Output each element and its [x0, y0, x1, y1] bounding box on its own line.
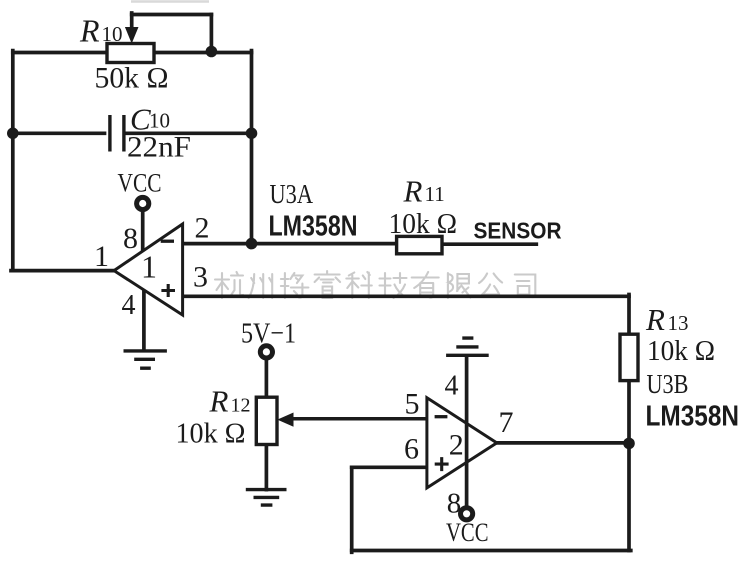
svg-text:10: 10 [149, 109, 170, 133]
watermark char 4 (rui) [315, 271, 341, 298]
junction node U3B output [623, 438, 635, 450]
wire U3B output pin7 [497, 441, 631, 445]
svg-text:5V−1: 5V−1 [241, 318, 296, 350]
svg-text:8: 8 [447, 487, 462, 519]
svg-text:4: 4 [122, 290, 136, 321]
junction node pin2 [246, 238, 258, 250]
svg-text:LM358N: LM358N [646, 401, 740, 433]
svg-text:1: 1 [141, 249, 157, 285]
watermark char 10 (si) [515, 275, 536, 298]
svg-text:10k Ω: 10k Ω [389, 208, 458, 240]
inverted ground above U3B pin4 [446, 338, 489, 355]
svg-text:2: 2 [449, 429, 464, 462]
svg-text:50k Ω: 50k Ω [95, 62, 169, 95]
minus sign inside U3A [161, 240, 174, 243]
plus sign inside U3A [161, 284, 175, 297]
svg-text:6: 6 [404, 433, 419, 466]
svg-text:10: 10 [102, 22, 123, 46]
svg-text:8: 8 [123, 222, 138, 255]
resistor R10 body (potentiometer) [107, 44, 154, 63]
wire left vertical [11, 51, 15, 271]
watermark char 3 (jiang) [281, 273, 309, 298]
svg-text:10k Ω: 10k Ω [647, 335, 715, 367]
watermark char 8 (xian) [448, 273, 471, 298]
wire pin6 horizontal into U3B [352, 465, 427, 469]
faint cropped line at top [131, 0, 209, 3]
resistor R13 body [620, 334, 638, 380]
svg-text:R: R [79, 13, 100, 49]
svg-text:4: 4 [445, 370, 459, 401]
wire R12 bottom to ground [265, 445, 269, 490]
svg-text:12: 12 [231, 395, 251, 417]
svg-text:10k Ω: 10k Ω [176, 418, 246, 450]
wire U3A output pin1 to left rail [11, 269, 115, 273]
svg-text:SENSOR: SENSOR [474, 217, 562, 243]
svg-text:R: R [209, 384, 229, 419]
svg-text:U3A: U3A [270, 179, 314, 209]
watermark char 9 (gong) [479, 274, 502, 295]
wire R12 wiper to U3B pin5 [291, 417, 427, 421]
svg-text:U3B: U3B [647, 369, 689, 399]
watermark char 2 (zhou) [249, 274, 273, 298]
svg-text:11: 11 [425, 182, 445, 206]
wire C10 right segment [125, 131, 251, 135]
wire R13 to output junction [627, 380, 631, 443]
capacitor C10 left plate [108, 115, 111, 152]
wire U3A pin2 to R11 [183, 242, 397, 246]
svg-text:2: 2 [195, 212, 210, 245]
svg-text:LM358N: LM358N [269, 211, 358, 243]
wire right column pin3 to R13 [627, 295, 631, 335]
wire R10 wiper vertical drop [210, 15, 214, 52]
watermark char 5 (ke) [346, 272, 372, 298]
svg-text:7: 7 [499, 406, 514, 439]
wire feedback vertical up to pin6 [350, 467, 354, 552]
wire top feedback horizontal (R10 row) [13, 51, 252, 55]
svg-text:1: 1 [94, 240, 109, 273]
potentiometer R12 wiper arrow [277, 413, 293, 427]
wire R10 wiper top [132, 13, 212, 17]
ground under R12 [246, 490, 287, 506]
wire 5V-1 to R12 top [265, 358, 269, 397]
VCC terminal circle (top) [137, 197, 149, 209]
svg-text:R: R [645, 302, 665, 337]
op-amp U3B triangle [427, 398, 497, 488]
svg-text:3: 3 [193, 261, 208, 294]
junction node R10 wiper [206, 46, 218, 58]
resistor R10 wiper arrow [125, 27, 139, 44]
wire R11 to SENSOR [442, 242, 536, 246]
5V-1 terminal circle [260, 346, 272, 358]
wire U3A pin4 to ground [142, 290, 146, 351]
wire U3A pin3 horizontal [183, 294, 629, 298]
svg-text:VCC: VCC [118, 169, 162, 198]
minus sign inside U3B [435, 415, 448, 418]
wire bottom feedback horizontal [352, 549, 631, 553]
op-amp U3A triangle [114, 224, 183, 315]
svg-text:22nF: 22nF [127, 131, 191, 164]
capacitor C10 right plate [122, 115, 125, 152]
plus sign inside U3B [435, 457, 449, 471]
svg-text:13: 13 [668, 311, 689, 335]
wire right vertical from R10 row to pin2 node [250, 51, 254, 244]
wire U3B power rail pin4-pin8 through body [465, 355, 469, 507]
svg-text:R: R [403, 174, 423, 209]
junction node C10 right [246, 128, 258, 140]
watermark char 6 (ji) [380, 273, 407, 298]
svg-text:5: 5 [405, 388, 420, 421]
wire output junction down right column [627, 443, 631, 550]
wire R10 wiper stem [130, 13, 134, 30]
junction node C10 left [7, 128, 19, 140]
resistor R11 body [397, 236, 442, 253]
wire VCC to U3A pin8 [141, 210, 145, 251]
ground under U3A pin4 [124, 351, 167, 368]
potentiometer R12 body [256, 397, 277, 444]
watermark char 1 (hang) [215, 272, 243, 298]
wire C10 left segment [13, 131, 105, 135]
VCC terminal circle (bottom, U3B pin8) [461, 508, 473, 520]
svg-text:VCC: VCC [446, 518, 489, 547]
watermark char 7 (you) [412, 272, 439, 298]
